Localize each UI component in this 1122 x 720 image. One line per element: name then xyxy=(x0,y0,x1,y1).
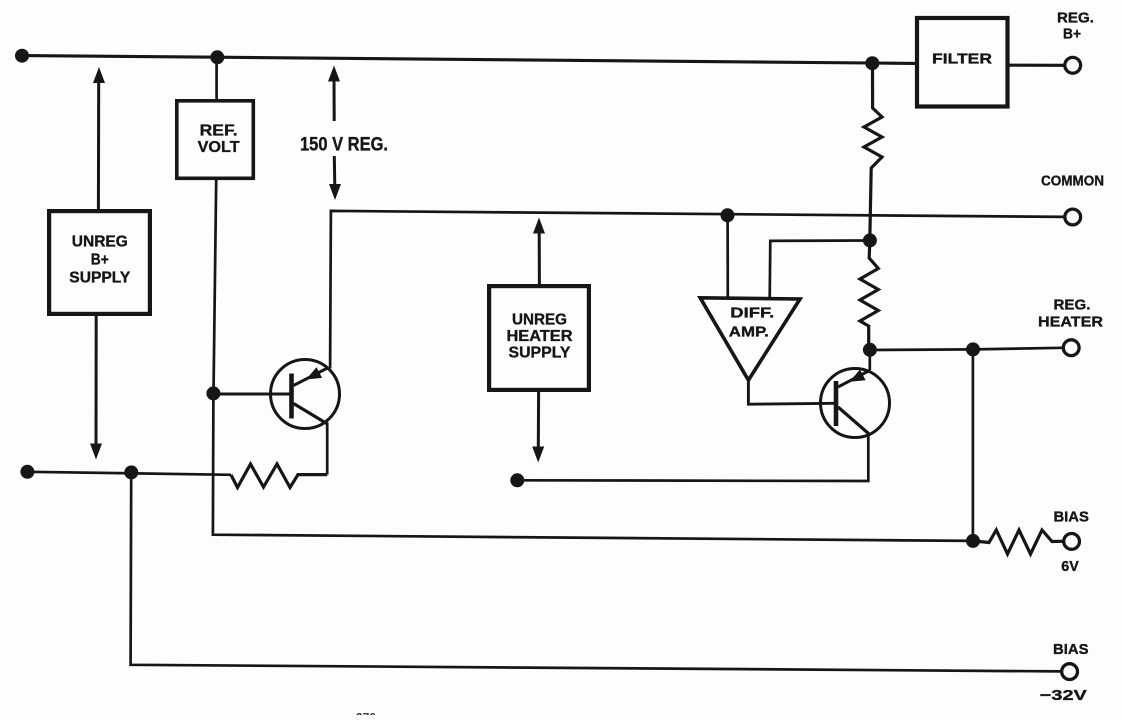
wire: REG. HEATER line xyxy=(868,348,1062,350)
op-amp U1: DIFF. AMP triangle xyxy=(700,298,800,380)
svg-text:COMMON: COMMON xyxy=(1041,173,1104,189)
arrow: UNREG B+ supply up arrow xyxy=(93,67,105,209)
label: REG. HEATER xyxy=(1038,296,1103,330)
block: UNREG B+ SUPPLY box xyxy=(49,211,150,314)
label: BIAS 6V xyxy=(1053,508,1089,575)
node C: junction to -32V run xyxy=(124,465,138,479)
wire: left bottom horizontal to resistor R3 xyxy=(27,472,231,475)
svg-text:6V: 6V xyxy=(1061,558,1079,575)
terminal: BIAS -32V xyxy=(1062,664,1078,680)
block: FILTER box xyxy=(917,18,1008,107)
transistor Q1 circle xyxy=(271,360,340,429)
wire: FILTER output to REG. B+ terminal xyxy=(1008,64,1065,67)
resistor R2 (divider, vertical) xyxy=(860,241,878,351)
svg-text:REF.: REF. xyxy=(200,122,238,139)
node: rail / R1 junction xyxy=(865,56,879,70)
node: rail left end xyxy=(15,49,29,63)
label: REF. VOLT text xyxy=(198,122,240,156)
wire: UNREG HEATER bottom line to Q2 collector xyxy=(517,433,868,482)
svg-text:BIAS: BIAS xyxy=(1053,641,1089,658)
arrow: 150 V REG. up arrow xyxy=(328,66,340,122)
label: REG. B+ xyxy=(1057,9,1094,42)
svg-text:SUPPLY: SUPPLY xyxy=(509,345,571,362)
svg-text:HEATER: HEATER xyxy=(1038,313,1103,330)
transistor Q1 emitter lead with arrow xyxy=(294,367,329,385)
terminal: REG. HEATER xyxy=(1063,340,1079,356)
resistor R3 (Q1 emitter resistor, horizontal) xyxy=(231,464,327,488)
transistor Q2 collector lead xyxy=(838,407,869,434)
wire: REF. VOLT top lead xyxy=(215,57,218,100)
svg-text:HEATER: HEATER xyxy=(507,328,573,345)
terminal: REG. B+ xyxy=(1065,57,1081,73)
svg-text:REG.: REG. xyxy=(1054,296,1091,313)
svg-text:VOLT: VOLT xyxy=(198,139,240,156)
svg-text:UNREG: UNREG xyxy=(72,233,128,250)
node B: R1/R2 divider tap xyxy=(863,233,877,247)
node: left bottom end xyxy=(20,465,34,479)
wire: node E drop to BIAS node D xyxy=(972,349,975,541)
wire: -32V line from node C to BIAS -32V terminal xyxy=(131,472,1061,671)
wire: DIFF. AMP input 1 from COMMON node xyxy=(726,215,729,299)
svg-text:AMP.: AMP. xyxy=(729,323,769,340)
node: rail / REF VOLT junction xyxy=(210,50,224,64)
transistor Q2 circle xyxy=(821,369,890,438)
node: R2 / Q2 emitter / heater line xyxy=(863,343,877,357)
svg-text:BIAS: BIAS xyxy=(1053,508,1089,525)
transistor Q1 collector lead xyxy=(294,404,328,425)
svg-text:REG.: REG. xyxy=(1057,9,1094,26)
svg-text:370: 370 xyxy=(356,711,376,716)
arrow: 150 V REG. down arrow xyxy=(329,156,341,200)
svg-text:FILTER: FILTER xyxy=(932,50,992,67)
block: UNREG HEATER SUPPLY box xyxy=(489,286,589,390)
wire: Q2 emitter up to REG. HEATER node xyxy=(868,350,871,371)
resistor R1 (150V reg dropping, vertical) xyxy=(864,63,882,240)
arrow: UNREG HEATER supply up arrow xyxy=(533,218,545,286)
node D: bias line / R4 xyxy=(966,534,980,548)
terminal: BIAS 6V xyxy=(1064,534,1080,550)
block: REF. VOLT box xyxy=(177,101,254,179)
wire: Q1 collector down to R3 xyxy=(326,423,329,475)
svg-text:DIFF.: DIFF. xyxy=(730,304,774,321)
node: COMMON / diff input junction xyxy=(721,208,735,222)
node E: heater line / bias drop xyxy=(966,342,980,356)
node A: REF VOLT line / Q1 base xyxy=(206,386,220,400)
svg-text:150 V REG.: 150 V REG. xyxy=(300,135,388,156)
svg-text:SUPPLY: SUPPLY xyxy=(69,270,130,287)
label: UNREG HEATER SUPPLY text xyxy=(507,311,573,361)
transistor Q2 emitter lead with arrow xyxy=(838,370,870,388)
arrow: UNREG HEATER supply down arrow xyxy=(532,391,544,463)
transistor Q2 base bar xyxy=(834,381,839,426)
transistor Q1 base bar xyxy=(289,374,294,419)
wire: top B+ rail xyxy=(22,56,915,64)
wire: Q1 base lead xyxy=(214,392,290,395)
resistor R4 (BIAS 6V series, horizontal) xyxy=(973,530,1063,554)
terminal: COMMON xyxy=(1065,209,1081,225)
arrow: UNREG B+ supply down arrow xyxy=(90,316,102,460)
label: BIAS -32V xyxy=(1040,641,1089,704)
svg-text:−32V: −32V xyxy=(1040,687,1087,704)
wire: REF. VOLT bottom lead down to node A xyxy=(214,180,217,394)
svg-text:UNREG: UNREG xyxy=(512,311,567,328)
wire: DIFF. AMP input 2 from node B xyxy=(770,241,870,300)
svg-text:B+: B+ xyxy=(1063,25,1081,42)
label: DIFF. AMP text xyxy=(729,304,775,340)
wire: DIFF. AMP output to Q2 base xyxy=(748,380,834,404)
wire: COMMON line (from Q1 emitter corner to COMMON terminal) xyxy=(330,211,1064,369)
svg-text:B+: B+ xyxy=(91,251,109,268)
wire: node A down, corner, BIAS 6V line to node D xyxy=(213,393,973,541)
label: UNREG B+ SUPPLY text xyxy=(69,233,130,286)
node: heater bottom left end xyxy=(510,473,524,487)
